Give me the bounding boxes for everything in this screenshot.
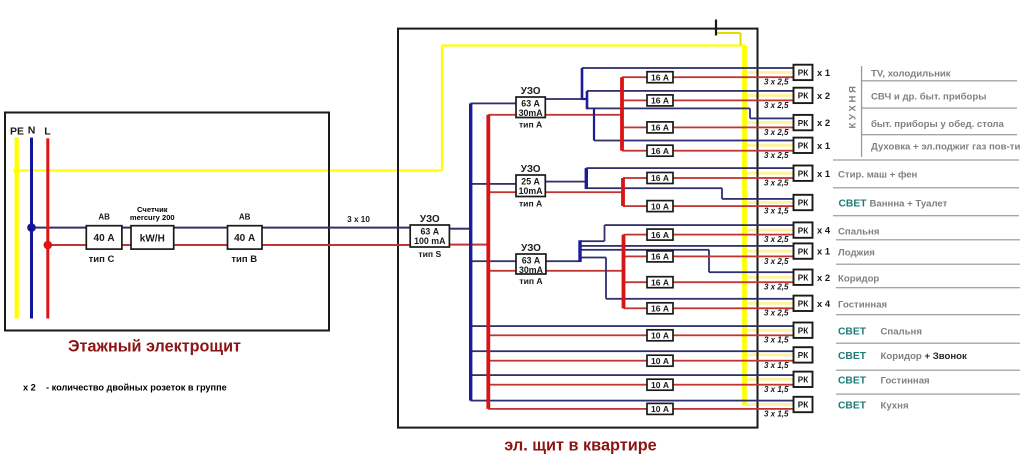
breaker circuit 11 10 А	[647, 330, 673, 341]
svg-text:kW/H: kW/H	[140, 234, 165, 245]
svg-text:63 А: 63 А	[521, 99, 540, 109]
svg-text:х 2: х 2	[817, 90, 830, 101]
RCD U1 63A 30mA	[516, 97, 545, 118]
svg-text:16 А: 16 А	[651, 277, 669, 287]
junction box РК circuit 3	[794, 115, 813, 130]
svg-text:10 А: 10 А	[651, 201, 669, 211]
svg-text:16 А: 16 А	[651, 123, 669, 133]
svg-text:16 А: 16 А	[651, 173, 669, 183]
svg-text:РК: РК	[798, 273, 809, 282]
svg-text:3 х 10: 3 х 10	[347, 215, 370, 224]
wire PE vertical (yellow) in floor panel	[15, 137, 19, 319]
svg-text:РК: РК	[798, 69, 809, 78]
svg-text:х 4: х 4	[817, 298, 831, 309]
svg-text:3 х 2,5: 3 х 2,5	[764, 151, 789, 160]
svg-text:16 А: 16 А	[651, 96, 669, 106]
svg-text:тип А: тип А	[519, 119, 542, 129]
wire N output of RCD1 (blue)	[545, 98, 582, 100]
svg-text:Гостинная: Гостинная	[838, 300, 887, 311]
svg-text:РК: РК	[798, 376, 809, 385]
wire PE elbow from enclosure ground stub	[716, 32, 741, 34]
N riser RCD1 link	[581, 98, 588, 100]
svg-text:Лоджия: Лоджия	[838, 247, 875, 258]
wire PE branch to socket group 1 (pale yellow)	[743, 71, 795, 74]
wire N vertical (blue) in floor panel	[30, 138, 33, 319]
wire L vertical (red) in floor panel	[46, 138, 49, 318]
svg-text:63 А: 63 А	[522, 256, 541, 266]
breaker circuit 9 16 А	[647, 277, 673, 288]
wire L circuit 10 (red)	[624, 307, 795, 309]
wire PE horizontal from floor panel to riser	[17, 169, 442, 171]
wire N circuit 14 (blue)	[471, 400, 795, 402]
svg-text:УЗО: УЗО	[420, 214, 440, 225]
separator line under kitchen row 2	[862, 108, 1017, 109]
separator line under kitchen row 1	[862, 80, 1017, 81]
svg-text:63 А: 63 А	[421, 227, 440, 237]
svg-text:тип В: тип В	[231, 254, 257, 265]
svg-text:3 х 1,5: 3 х 1,5	[764, 361, 789, 370]
svg-text:PE: PE	[10, 126, 24, 138]
N riser RCD2 (blue)	[585, 168, 588, 189]
separator line under row 9	[836, 287, 1020, 288]
wire N input to RCD1 (blue)	[471, 103, 516, 105]
svg-text:3 х 2,5: 3 х 2,5	[764, 78, 789, 87]
wire L circuit 3 (red)	[622, 127, 795, 129]
svg-text:УЗО: УЗО	[521, 243, 541, 254]
floor panel enclosure box	[5, 113, 329, 331]
svg-text:быт. приборы у обед. стола: быт. приборы у обед. стола	[871, 119, 1005, 130]
wire PE branch to socket group 12 (pale yellow)	[743, 353, 795, 356]
wire N circuit 5 (blue)	[586, 167, 794, 169]
svg-text:30mA: 30mA	[519, 108, 544, 118]
svg-text:РК: РК	[798, 226, 809, 235]
svg-text:100 mA: 100 mA	[414, 236, 446, 246]
separator line under row 11	[836, 343, 1020, 344]
svg-text:РК: РК	[798, 92, 809, 101]
svg-text:3 х 2,5: 3 х 2,5	[764, 235, 789, 244]
svg-text:Коридор: Коридор	[838, 273, 879, 284]
svg-text:РК: РК	[798, 326, 809, 335]
svg-text:10 А: 10 А	[651, 331, 669, 341]
wire N circuit 7 (blue)	[580, 240, 605, 242]
wire PE branch to socket group 4 (pale yellow)	[743, 144, 795, 147]
svg-text:3 х 1,5: 3 х 1,5	[764, 385, 789, 394]
wire PE branch to socket group 14 (pale yellow)	[743, 403, 795, 406]
wire N input to RCD3 (blue)	[471, 260, 516, 262]
L riser RCD2 (red)	[621, 178, 625, 206]
separator line under row 10	[836, 314, 1020, 315]
breaker circuit 12 10 А	[647, 355, 673, 366]
wire PE riser up	[441, 46, 443, 171]
breaker circuit 5 16 А	[647, 173, 673, 184]
junction box РК circuit 11	[794, 323, 813, 338]
breaker circuit 6 10 А	[647, 201, 673, 212]
wire N circuit 13 (blue)	[471, 374, 795, 376]
breaker circuit 2 16 А	[647, 95, 673, 106]
breaker QF2 40 A box	[228, 226, 263, 249]
wire L output of RCD1 (red)	[545, 114, 622, 116]
wire PE branch to socket group 7 (pale yellow)	[743, 229, 795, 232]
wire N circuit 8 (blue)	[580, 245, 795, 247]
wire L output of RCD2 (red)	[545, 191, 623, 193]
svg-text:10 А: 10 А	[651, 404, 669, 414]
svg-text:х 2: х 2	[817, 117, 830, 128]
svg-text:3 х 2,5: 3 х 2,5	[764, 178, 789, 187]
svg-text:Спальня: Спальня	[838, 226, 879, 237]
breaker circuit 3 16 А	[647, 122, 673, 133]
ground stub on top of apartment panel	[715, 20, 717, 36]
N riser RCD1 segment b (blue)	[586, 91, 589, 109]
wire N output of RCD3 (blue)	[546, 260, 580, 262]
breaker circuit 1 16 А	[647, 72, 673, 83]
svg-text:РК: РК	[798, 351, 809, 360]
svg-text:АВ: АВ	[239, 212, 251, 221]
breaker circuit 7 16 А	[647, 229, 673, 240]
N riser RCD1 segment a (blue)	[581, 68, 584, 100]
wire N output of main RCD to N-bus (blue)	[449, 228, 470, 230]
wire L circuit 13 (red)	[488, 384, 794, 386]
wire N circuit 3 with jog (blue)	[587, 108, 750, 110]
wire L circuit 8 (red)	[624, 256, 795, 258]
wire L circuit 1 (red)	[622, 76, 795, 78]
wire PE branch to socket group 13 (pale yellow)	[743, 378, 795, 381]
separator line under row 6	[833, 215, 1019, 216]
wire PE branch to socket group 6 (pale yellow)	[743, 201, 795, 204]
apartment panel enclosure box	[398, 29, 758, 428]
svg-text:тип С: тип С	[89, 254, 115, 265]
wire PE branch to socket group 2 (pale yellow)	[743, 94, 795, 97]
svg-text:х 1: х 1	[817, 246, 830, 257]
wire L circuit 11 (red)	[488, 334, 794, 336]
junction box РК circuit 6	[794, 195, 813, 210]
svg-text:РК: РК	[798, 119, 809, 128]
svg-text:10mA: 10mA	[519, 186, 544, 196]
RCD U3 63A 30mA	[516, 254, 546, 274]
svg-text:L: L	[44, 126, 51, 138]
group bracket КУХНЯ vertical line	[861, 66, 862, 157]
L riser RCD1 (red)	[620, 77, 624, 151]
svg-text:3 х 2,5: 3 х 2,5	[764, 283, 789, 292]
wire PE branch to socket group 9 (pale yellow)	[743, 276, 795, 279]
junction box РК circuit 12	[794, 347, 813, 362]
wire PE branch to socket group 11 (pale yellow)	[743, 329, 795, 332]
wire PE branch to socket group 3 (pale yellow)	[743, 121, 795, 124]
wire L circuit 5 (red)	[623, 177, 795, 179]
svg-text:РК: РК	[798, 142, 809, 151]
wire N circuit 6 with jog (blue)	[586, 187, 722, 189]
svg-text:УЗО: УЗО	[521, 164, 541, 175]
junction box РК circuit 2	[794, 88, 813, 103]
svg-text:16 А: 16 А	[651, 304, 669, 314]
RCD U0 main 63A 100mA	[410, 225, 449, 247]
svg-text:тип А: тип А	[519, 276, 542, 286]
svg-text:х 2 - количество двойных ро: х 2 - количество двойных розеток в групп…	[23, 382, 227, 392]
separator line under row 4	[833, 159, 1019, 160]
junction box РК circuit 7	[794, 222, 813, 237]
wire N circuit 11 (blue)	[471, 325, 795, 327]
wire L from floor panel to RCD (red)	[48, 244, 410, 246]
wire PE branch to socket group 5 (pale yellow)	[743, 172, 795, 175]
svg-text:3 х 2,5: 3 х 2,5	[764, 128, 789, 137]
svg-text:х 1: х 1	[817, 168, 830, 179]
svg-text:СВЕТВаннна + Туалет: СВЕТВаннна + Туалет	[839, 199, 948, 210]
svg-text:РК: РК	[798, 247, 809, 256]
svg-text:30mA: 30mA	[519, 265, 544, 275]
wire L input to RCD1 (red)	[488, 114, 516, 116]
wire N circuit 12 (blue)	[471, 350, 795, 352]
svg-text:х 1: х 1	[817, 140, 830, 151]
meter kW/H box	[131, 226, 174, 249]
svg-text:16 А: 16 А	[651, 72, 669, 82]
svg-text:СВЧ и др. быт. приборы: СВЧ и др. быт. приборы	[871, 92, 986, 103]
svg-text:25 А: 25 А	[521, 177, 540, 187]
node PE tap (yellow)	[13, 167, 20, 174]
wire N circuit 2 (blue)	[587, 90, 795, 92]
svg-text:3 х 2,5: 3 х 2,5	[764, 101, 789, 110]
svg-text:16 А: 16 А	[651, 252, 669, 262]
svg-text:УЗО: УЗО	[521, 86, 541, 97]
wire L input to RCD2 (red)	[488, 191, 516, 193]
svg-text:тип S: тип S	[418, 249, 441, 259]
wire PE branch to socket group 8 (pale yellow)	[743, 250, 795, 253]
wire L output of RCD3 (red)	[546, 270, 624, 272]
junction box РК circuit 9	[794, 270, 813, 285]
wire N input to RCD2 (blue)	[471, 183, 516, 185]
separator line under row 8	[836, 264, 1020, 265]
separator line under row 13	[836, 394, 1020, 395]
wire PE branch to socket group 10 (pale yellow)	[743, 302, 795, 305]
svg-text:3 х 2,5: 3 х 2,5	[764, 309, 789, 318]
svg-text:К У Х Н Я: К У Х Н Я	[848, 86, 859, 128]
N bus vertical (blue)	[469, 103, 472, 400]
wire L circuit 9 (red)	[624, 281, 795, 283]
wire L circuit 4 (red)	[622, 150, 795, 152]
svg-text:Стир. маш + фен: Стир. маш + фен	[838, 169, 918, 180]
breaker circuit 13 10 А	[647, 379, 673, 390]
wire N circuit 10 (blue)	[580, 257, 606, 259]
wire N circuit 1 (blue)	[582, 67, 795, 69]
svg-text:х 1: х 1	[817, 67, 830, 78]
wire PE horizontal along top of apartment panel	[442, 44, 746, 46]
L bus vertical (red)	[486, 115, 490, 409]
wire N from floor panel to RCD (blue)	[32, 227, 411, 229]
svg-text:СВЕТСпальня: СВЕТСпальня	[838, 326, 922, 337]
svg-text:РК: РК	[798, 169, 809, 178]
separator line under row 5	[833, 187, 1019, 188]
wire L circuit 14 (red)	[488, 408, 794, 410]
breaker circuit 4 16 А	[647, 145, 673, 156]
wire N circuit 9 with jog (blue)	[580, 249, 709, 251]
wire L output of main RCD to L-bus (red)	[449, 244, 488, 246]
svg-text:10 А: 10 А	[651, 380, 669, 390]
svg-text:16 А: 16 А	[651, 146, 669, 156]
svg-text:Этажный электрощит: Этажный электрощит	[68, 338, 241, 356]
svg-text:3 х 1,5: 3 х 1,5	[764, 336, 789, 345]
N riser RCD1 segment c (blue)	[593, 108, 595, 141]
L riser RCD3 (red)	[622, 235, 626, 309]
svg-text:СВЕТКоридор + Звонок: СВЕТКоридор + Звонок	[838, 351, 967, 362]
svg-text:40 А: 40 А	[94, 233, 115, 244]
wire L circuit 12 (red)	[488, 360, 794, 362]
svg-text:РК: РК	[798, 401, 809, 410]
junction box РК circuit 4	[794, 138, 813, 153]
wire L circuit 6 (red)	[623, 205, 795, 207]
svg-text:10 А: 10 А	[651, 356, 669, 366]
separator line under row 12	[836, 370, 1020, 371]
PE bus vertical (thick yellow) in apartment panel	[742, 46, 747, 405]
separator line under row 7	[836, 239, 1020, 240]
svg-text:40 А: 40 А	[234, 233, 255, 244]
wire L input to RCD3 (red)	[488, 270, 516, 272]
wire N output of RCD2 (blue)	[545, 181, 586, 183]
svg-text:тип А: тип А	[519, 198, 542, 208]
breaker circuit 14 10 А	[647, 403, 673, 414]
junction box РК circuit 8	[794, 243, 813, 258]
svg-text:РК: РК	[798, 199, 809, 208]
wire L circuit 2 (red)	[622, 100, 795, 102]
junction box РК circuit 13	[794, 372, 813, 387]
node L tap (red)	[44, 241, 53, 250]
svg-text:16 А: 16 А	[651, 230, 669, 240]
wire L circuit 7 (red)	[624, 234, 795, 236]
svg-text:СВЕТГостинная: СВЕТГостинная	[838, 376, 930, 387]
separator line under kitchen row 3	[862, 134, 1017, 135]
svg-text:N: N	[28, 125, 36, 137]
svg-text:х 2: х 2	[817, 272, 830, 283]
junction box РК circuit 10	[794, 296, 813, 311]
svg-text:mercury 200: mercury 200	[130, 213, 175, 222]
breaker QF1 40 A box	[86, 226, 122, 249]
svg-text:TV, холодильник: TV, холодильник	[871, 69, 951, 80]
svg-text:х 4: х 4	[817, 225, 831, 236]
svg-text:3 х 2,5: 3 х 2,5	[764, 257, 789, 266]
breaker circuit 10 16 А	[647, 303, 673, 314]
junction box РК circuit 1	[794, 65, 813, 80]
N riser RCD3 (blue)	[578, 240, 581, 262]
svg-text:Духовка + эл.поджиг газ пов-ти: Духовка + эл.поджиг газ пов-ти	[871, 142, 1020, 153]
svg-text:эл. щит в квартире: эл. щит в квартире	[504, 437, 656, 455]
svg-text:3 х 1,5: 3 х 1,5	[764, 409, 789, 418]
svg-text:АВ: АВ	[98, 212, 110, 221]
node N tap (blue)	[27, 223, 36, 232]
RCD U2 25A 10mA	[516, 175, 545, 197]
breaker circuit 8 16 А	[647, 251, 673, 262]
wire N circuit 4 (blue)	[594, 140, 795, 142]
svg-text:3 х 1,5: 3 х 1,5	[764, 207, 789, 216]
junction box РК circuit 14	[794, 397, 813, 412]
svg-text:СВЕТКухня: СВЕТКухня	[838, 401, 909, 412]
junction box РК circuit 5	[794, 166, 813, 181]
svg-text:РК: РК	[798, 300, 809, 309]
